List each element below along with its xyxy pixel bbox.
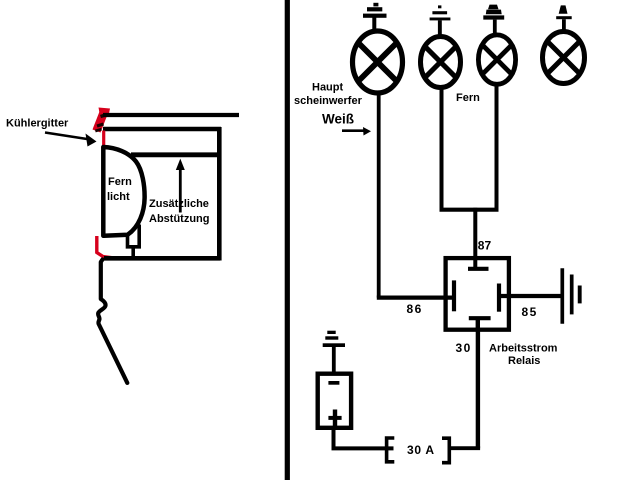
svg-text:Fern: Fern (456, 92, 480, 104)
divider line (285, 0, 290, 480)
ground above L2 (430, 5, 451, 20)
grille red hatch (95, 108, 110, 132)
ground above L4 (556, 5, 572, 19)
arrow Weiß (white wire pointer) (342, 127, 371, 136)
body bottom line (104, 256, 220, 261)
wire lamp join horizontal (440, 208, 499, 212)
svg-text:Zusätzliche: Zusätzliche (149, 198, 209, 210)
contact 86 (452, 280, 456, 311)
svg-text:Kühlergitter: Kühlergitter (6, 118, 69, 130)
wire 30 down (476, 330, 480, 448)
lamp L2 Fern (421, 37, 461, 88)
headlight outline (D shape) (103, 147, 144, 236)
ground above L3 (483, 5, 504, 20)
ground above L1 (363, 3, 387, 18)
wire L2 down (440, 89, 444, 210)
body right edge (217, 127, 222, 261)
chassis ground G1 (562, 268, 579, 324)
contact 87 (468, 267, 489, 271)
wire battery to fuse (334, 428, 394, 448)
relay K1 box (446, 258, 509, 330)
arrow to brace (176, 159, 185, 213)
svg-text:Arbeitsstrom: Arbeitsstrom (489, 342, 558, 354)
lamp L1 Haupt scheinwerfer (353, 31, 403, 93)
bumper top line (103, 113, 239, 117)
svg-text:30: 30 (456, 341, 472, 355)
lead above L4 (562, 19, 566, 29)
svg-text:30 A: 30 A (407, 443, 435, 457)
contact 85 (497, 284, 501, 312)
wire L3 down (495, 86, 499, 210)
fender outline (98, 260, 127, 383)
svg-text:85: 85 (522, 305, 538, 319)
lamp L4 (543, 32, 585, 84)
lead above L1 (372, 18, 376, 31)
body top edge (103, 127, 221, 131)
red grille left edge (102, 131, 105, 148)
support brace (131, 152, 217, 157)
wire fuse to relay (449, 446, 480, 450)
wire 86 horizontal (377, 296, 452, 300)
svg-text:licht: licht (107, 191, 130, 203)
wire to terminal 87 (473, 208, 477, 269)
bulb holder (128, 225, 140, 259)
lamp L3 (478, 35, 515, 84)
contact 30 (469, 318, 491, 331)
wire L1 down (377, 94, 381, 298)
arrow to grille (45, 133, 97, 147)
battery B1 (318, 374, 351, 428)
fuse F1 left clip (387, 438, 395, 462)
lead above L2 (438, 20, 442, 34)
svg-text:Fern: Fern (108, 176, 132, 188)
svg-text:Relais: Relais (508, 355, 540, 367)
svg-text:Haupt: Haupt (312, 82, 344, 94)
lead above L3 (493, 20, 497, 33)
red lower corner (97, 236, 117, 258)
svg-text:86: 86 (407, 302, 423, 316)
svg-text:Abstützung: Abstützung (149, 213, 209, 225)
fuse F1 right clip (442, 438, 449, 463)
svg-text:Weiß: Weiß (322, 112, 354, 127)
svg-text:87: 87 (478, 239, 492, 253)
wire 85 to ground (500, 294, 562, 298)
battery minus (328, 381, 339, 385)
ground above battery (323, 331, 345, 372)
svg-text:scheinwerfer: scheinwerfer (294, 95, 363, 107)
battery plus (328, 410, 341, 427)
